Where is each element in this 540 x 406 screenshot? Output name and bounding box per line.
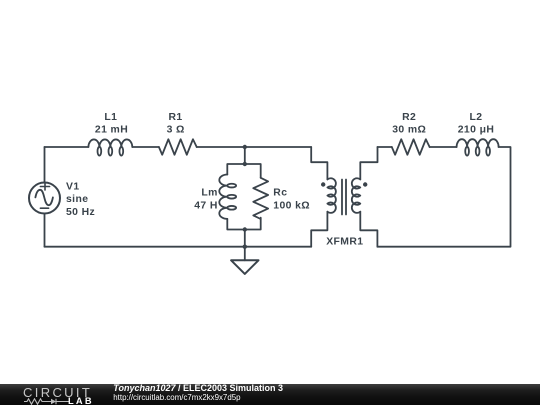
svg-text:210 μH: 210 μH bbox=[458, 125, 494, 136]
svg-text:47 H: 47 H bbox=[194, 201, 218, 212]
svg-text:3 Ω: 3 Ω bbox=[167, 125, 185, 136]
svg-text:XFMR1: XFMR1 bbox=[326, 237, 363, 248]
svg-text:50 Hz: 50 Hz bbox=[66, 207, 95, 218]
svg-text:100 kΩ: 100 kΩ bbox=[273, 201, 310, 212]
svg-text:R2: R2 bbox=[402, 112, 416, 123]
svg-text:L1: L1 bbox=[104, 112, 117, 123]
svg-text:30 mΩ: 30 mΩ bbox=[392, 125, 426, 136]
svg-text:sine: sine bbox=[66, 194, 88, 205]
svg-text:R1: R1 bbox=[168, 112, 182, 123]
svg-text:Rc: Rc bbox=[273, 188, 287, 199]
svg-text:V1: V1 bbox=[66, 182, 80, 193]
svg-text:21 mH: 21 mH bbox=[95, 125, 128, 136]
svg-text:L2: L2 bbox=[470, 112, 483, 123]
svg-text:Lm: Lm bbox=[201, 188, 217, 199]
